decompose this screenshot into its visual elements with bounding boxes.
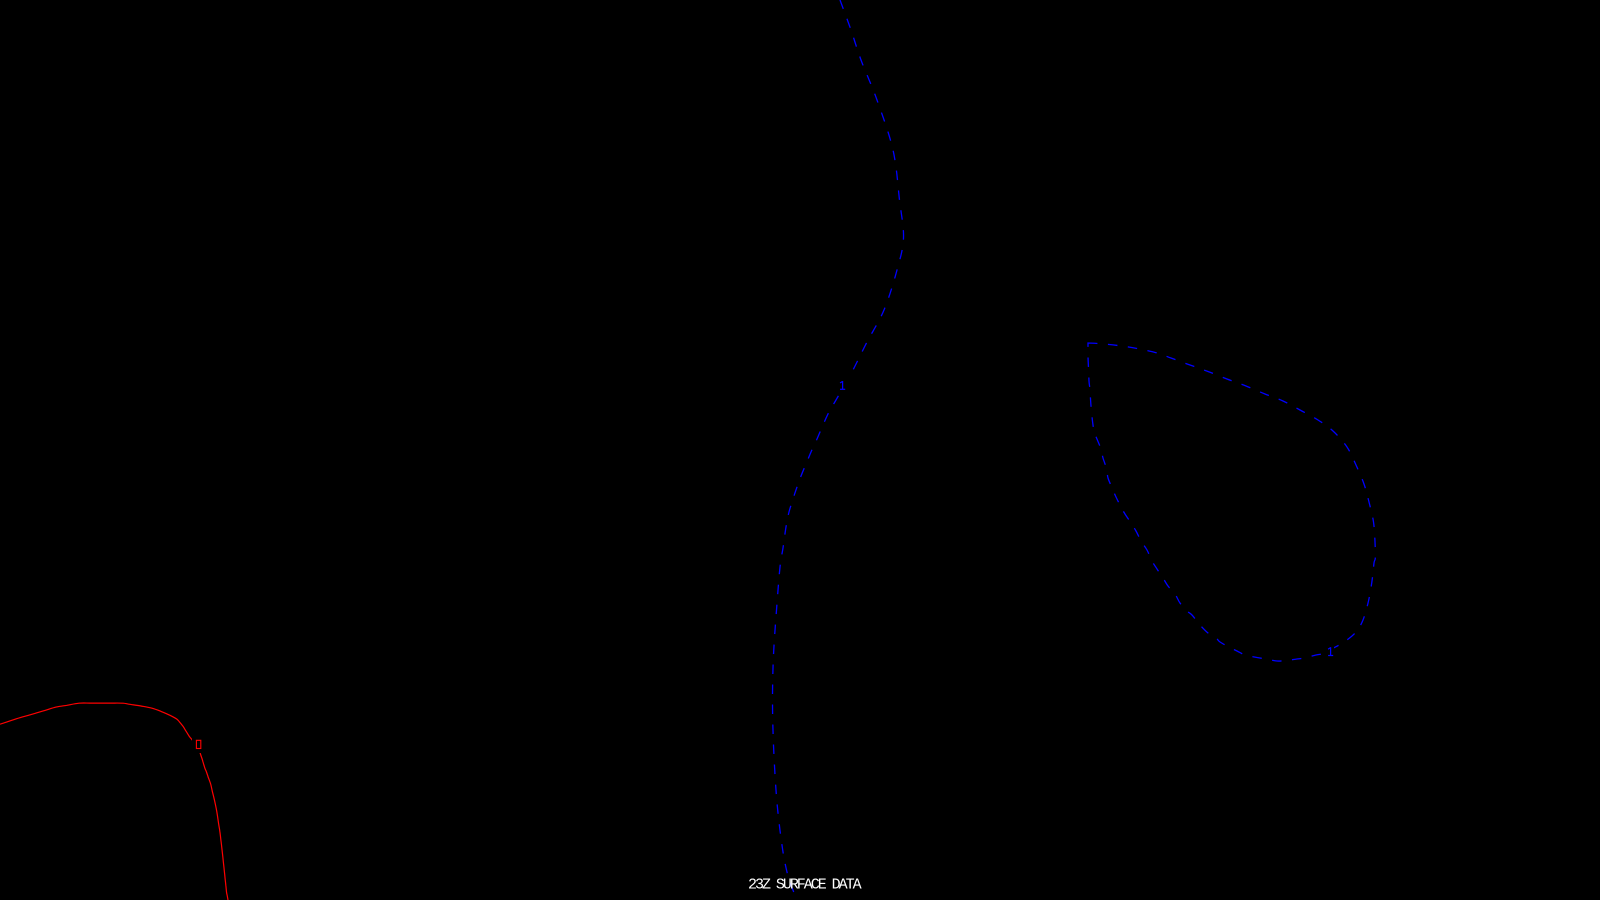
label 1 on loop [1328,647,1333,655]
label mask for blue 1 on loop [1324,643,1335,659]
contour line 0 (red solid) [0,703,228,900]
label 0 on red curve [196,740,200,748]
label mask for red 0 [192,738,204,753]
contour line 1 (blue dashed, open, top to bottom) [773,0,904,900]
label 1 on open curve [840,381,845,389]
contour line 1 (blue dashed, closed teardrop loop) [1088,343,1375,661]
label mask for blue 1 on open curve [837,377,849,393]
svg-text:23Z SURFACE DATA: 23Z SURFACE DATA [748,877,862,894]
